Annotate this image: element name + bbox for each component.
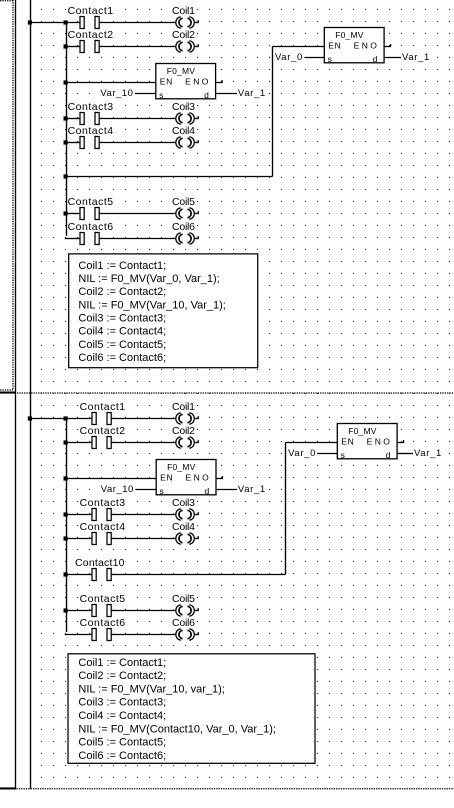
svg-text:Coil5 := Contact5;: Coil5 := Contact5; [78, 339, 166, 351]
svg-text:Var_10: Var_10 [100, 88, 133, 99]
svg-text:Contact3: Contact3 [68, 101, 114, 113]
svg-text:s: s [160, 486, 164, 496]
svg-text:Coil3 := Contact3;: Coil3 := Contact3; [78, 697, 166, 709]
svg-text:Coil3: Coil3 [172, 101, 195, 113]
svg-text:d: d [204, 90, 209, 100]
svg-text:s: s [328, 54, 332, 64]
svg-text:d: d [386, 450, 391, 460]
svg-text:ENO: ENO [185, 77, 209, 87]
svg-text:Coil2 := Contact2;: Coil2 := Contact2; [78, 670, 166, 682]
svg-text:F0_MV: F0_MV [348, 426, 377, 436]
svg-text:Coil3 := Contact3;: Coil3 := Contact3; [78, 313, 166, 325]
svg-text:NIL := F0_MV(Var_10, var_1);: NIL := F0_MV(Var_10, var_1); [78, 683, 224, 695]
svg-text:Var_1: Var_1 [402, 52, 429, 63]
svg-text:Var_1: Var_1 [414, 448, 441, 459]
svg-text:d: d [373, 54, 378, 64]
svg-text:Coil4: Coil4 [172, 125, 195, 137]
svg-text:Contact3: Contact3 [80, 497, 126, 509]
svg-text:Contact5: Contact5 [80, 593, 126, 605]
svg-text:Coil4 := Contact4;: Coil4 := Contact4; [78, 326, 166, 338]
svg-text:Coil2: Coil2 [172, 29, 195, 41]
svg-text:Coil6 := Contact6;: Coil6 := Contact6; [78, 352, 166, 364]
svg-text:Coil6: Coil6 [172, 221, 195, 233]
svg-text:Coil4 := Contact4;: Coil4 := Contact4; [78, 710, 166, 722]
svg-text:Coil1: Coil1 [172, 5, 195, 17]
svg-text:Contact1: Contact1 [80, 401, 126, 413]
svg-text:EN: EN [160, 473, 173, 483]
svg-text:Coil1 := Contact1;: Coil1 := Contact1; [78, 657, 166, 669]
svg-text:EN: EN [328, 41, 341, 51]
svg-text:Coil1: Coil1 [172, 401, 195, 413]
svg-text:Var_1: Var_1 [238, 484, 265, 495]
svg-text:F0_MV: F0_MV [167, 462, 196, 472]
svg-text:Contact4: Contact4 [68, 125, 114, 137]
svg-text:Contact2: Contact2 [80, 425, 126, 437]
svg-text:Coil6 := Contact6;: Coil6 := Contact6; [78, 750, 166, 762]
svg-text:Var_0: Var_0 [275, 52, 302, 63]
svg-text:Contact10: Contact10 [75, 557, 125, 569]
svg-text:Contact4: Contact4 [80, 521, 126, 533]
svg-text:ENO: ENO [367, 437, 391, 447]
svg-text:Var_10: Var_10 [101, 484, 134, 495]
svg-text:ENO: ENO [354, 41, 378, 51]
svg-text:NIL := F0_MV(Var_0, Var_1);: NIL := F0_MV(Var_0, Var_1); [78, 273, 219, 285]
svg-text:Contact1: Contact1 [68, 5, 114, 17]
svg-text:Coil5 := Contact5;: Coil5 := Contact5; [78, 737, 166, 749]
svg-text:EN: EN [160, 77, 173, 87]
svg-text:Coil3: Coil3 [172, 497, 195, 509]
svg-text:NIL := F0_MV(Contact10, Var_0,: NIL := F0_MV(Contact10, Var_0, Var_1); [78, 723, 276, 735]
svg-text:F0_MV: F0_MV [167, 66, 196, 76]
svg-text:s: s [341, 450, 345, 460]
svg-text:s: s [159, 90, 163, 100]
svg-text:Contact6: Contact6 [80, 617, 126, 629]
svg-text:Var_0: Var_0 [288, 448, 315, 459]
svg-text:NIL := F0_MV(Var_10, Var_1);: NIL := F0_MV(Var_10, Var_1); [78, 299, 225, 311]
svg-text:EN: EN [341, 437, 354, 447]
svg-text:Contact2: Contact2 [68, 29, 114, 41]
svg-text:d: d [205, 486, 210, 496]
svg-text:ENO: ENO [186, 473, 210, 483]
svg-text:Coil5: Coil5 [172, 593, 195, 605]
svg-text:Var_1: Var_1 [238, 88, 265, 99]
svg-text:Coil6: Coil6 [172, 617, 195, 629]
svg-text:Coil2 := Contact2;: Coil2 := Contact2; [78, 286, 166, 298]
svg-text:F0_MV: F0_MV [335, 30, 364, 40]
svg-text:Coil4: Coil4 [172, 521, 195, 533]
svg-text:Coil2: Coil2 [172, 425, 195, 437]
svg-text:Coil1 := Contact1;: Coil1 := Contact1; [78, 260, 166, 272]
svg-text:Contact6: Contact6 [68, 221, 114, 233]
svg-text:Coil5: Coil5 [172, 196, 195, 208]
svg-text:Contact5: Contact5 [68, 196, 114, 208]
